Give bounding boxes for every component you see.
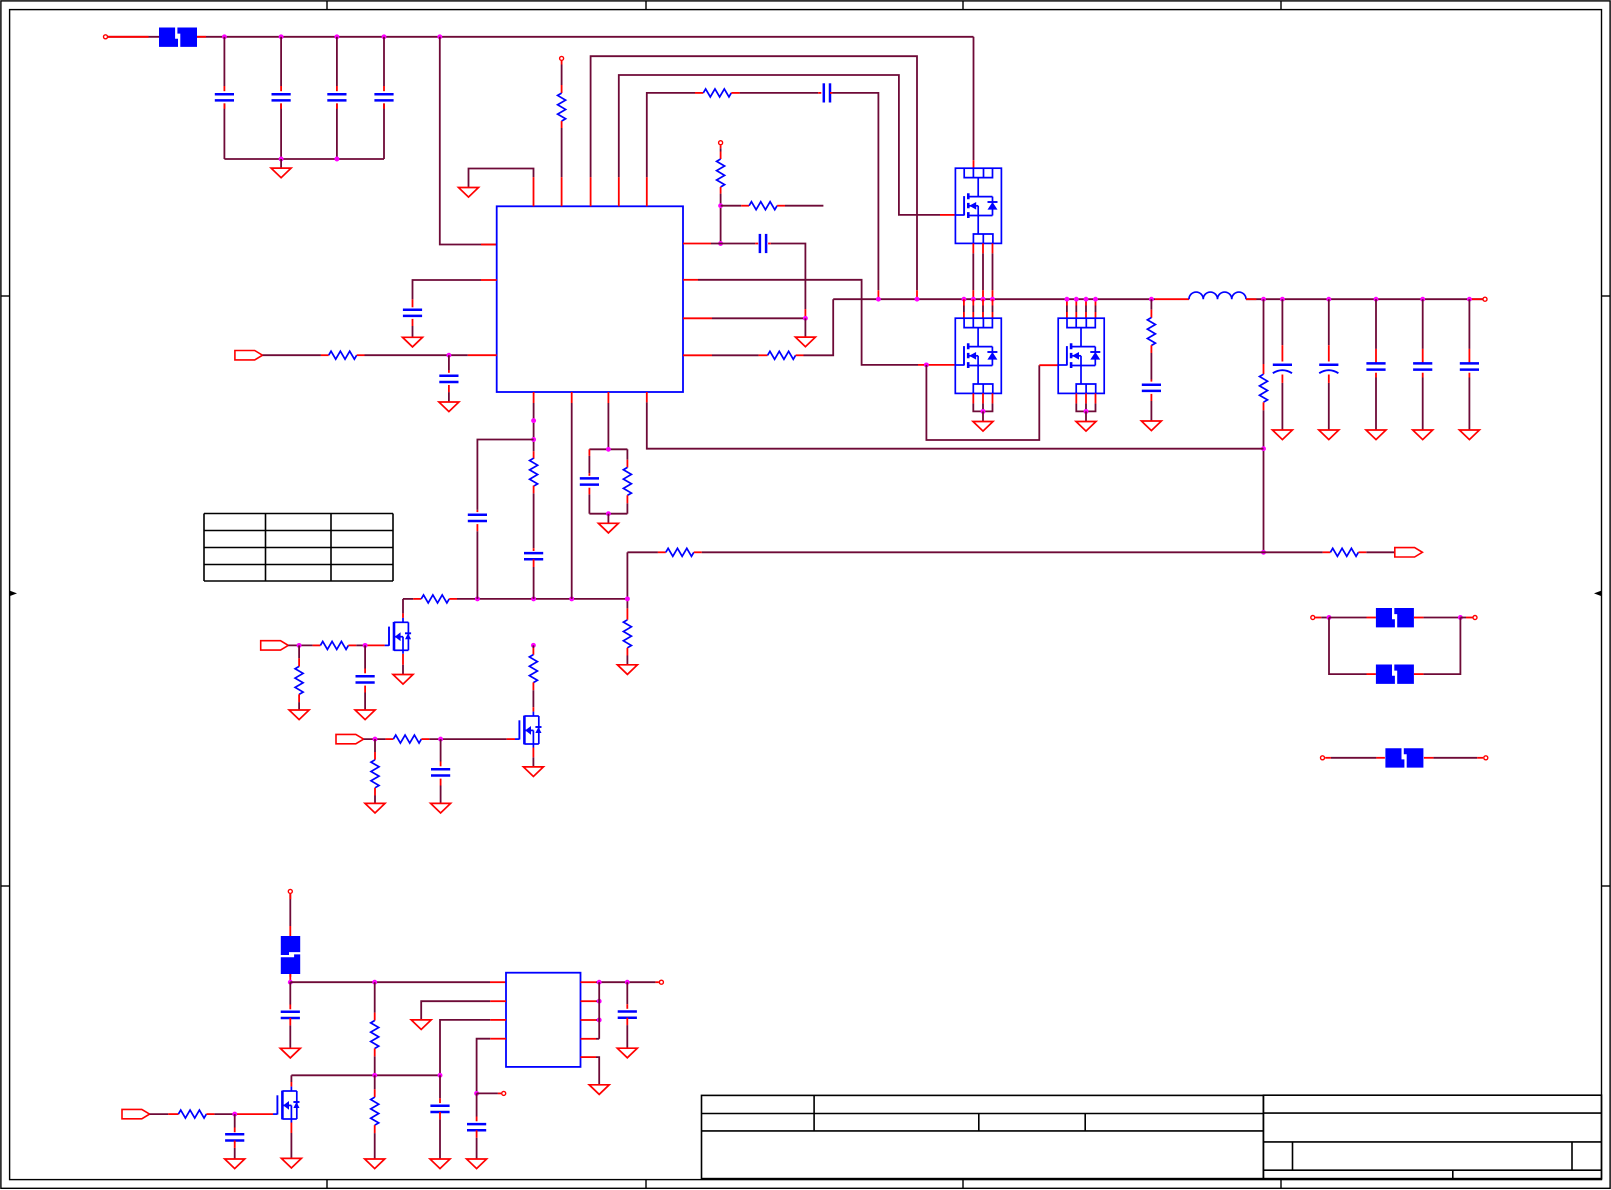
wire g5 wire2 [429,738,507,740]
wire c14 top [440,739,442,761]
terminal J1 VIN [104,35,108,39]
wire rc bottom bar [589,513,627,515]
wire j5 stub [1321,617,1329,619]
wire SW rail [833,298,1155,300]
junction q3-gnd [1084,409,1089,414]
ground C7 [439,402,459,412]
junction ldo-r20 [372,980,377,985]
capacitor C23 [1413,362,1432,365]
wire r19 bot [374,796,376,804]
junction adj-c18 [438,1073,443,1078]
wire C1 bottom lead [223,103,225,159]
ground U2 pin5 [589,1085,609,1095]
wire C3 bottom lead [336,103,338,159]
wire comp rail [457,598,627,600]
junction q5-drain [531,643,536,648]
ground C23 [1413,430,1433,440]
wire fb vertical [626,552,628,599]
resistor R21 [371,1097,379,1125]
wire C22 lead [1375,299,1377,349]
wire Q5 source [532,757,534,767]
wire rc cap bot [588,494,590,513]
fuse JP1 [1376,608,1395,627]
wire U2 adj pin [440,1020,490,1075]
wire EN port to R3 [263,354,321,356]
wire c17 top [626,982,628,1004]
resistor R5 [749,202,777,210]
wire c13 top [364,645,366,668]
wire fb gnd res top [626,599,628,609]
junction sw-q3b [1074,297,1079,302]
junction sw-q1b [971,297,976,302]
wire Q1 source pin1 [972,253,974,290]
junction out-d [597,1018,602,1023]
wire fb line right [1264,551,1323,553]
wire rc cap top [588,456,590,473]
wire gnd stem [280,159,282,168]
wire U2 out pin1 [596,981,655,983]
wire J2 to R1 [561,65,563,86]
ground U2 pin2 [411,1020,431,1030]
ground snubber [1141,421,1161,431]
transistor Q6 [290,1087,292,1091]
wire c19 bot [234,1148,236,1159]
ground C22 [1366,430,1386,440]
wire VOUT rail [1246,298,1483,300]
wire C7 top lead [448,355,450,370]
resistor R12 [421,595,449,603]
junction sw-q1a [961,297,966,302]
wire ldo vin rail [290,981,490,983]
capacitor C8 [759,234,762,253]
junction out-a [597,980,602,985]
ground rc [598,523,618,533]
junction out-c [597,999,602,1004]
wire jp top left [1329,617,1367,619]
wire U1 comp pin [571,403,573,599]
transistor Q1 [955,168,1001,243]
ground Q5 [523,767,543,777]
wire C4 top lead [383,37,385,86]
flag port G4 [261,641,289,650]
terminal J5 [1311,616,1315,620]
wire r21 bot [374,1133,376,1159]
wire VIN rail [197,36,974,38]
wire r21 top [374,1075,376,1089]
wire C8 to pgnd node [771,244,806,310]
capacitor C4 [374,93,393,96]
wire c14 bot [440,786,442,804]
terminal J8 [1484,756,1488,760]
wire C6 to gnd [412,326,414,337]
capacitor C16 [467,1123,486,1126]
ground Q6 [281,1158,301,1168]
junction vout-3 [1326,297,1331,302]
wire C1 top lead [223,37,225,86]
junction vout-6 [1467,297,1472,302]
junction g6 [232,1112,237,1117]
junction jp-left [1327,615,1332,620]
revision table [203,514,205,582]
wire rc gnd stem [607,514,609,524]
junction sw-q3a [1064,297,1069,302]
junction vout-2 [1280,297,1285,302]
wire U2 out pin4 [596,1038,599,1040]
wire C7 to gnd [448,392,450,402]
junction g5-a [373,737,378,742]
wire U1 pgnd pin [712,317,805,319]
wire R3 to U1 [365,354,468,356]
junction en-cap [446,353,451,358]
wire ss mid [533,493,535,548]
junction jp-right [1458,615,1463,620]
wire C21 gnd lead [1328,383,1330,430]
junction VIN-C4 [382,34,387,39]
wire Q4 source [402,665,404,675]
junction q2-gnd [981,409,986,414]
wire adj rail [291,1074,440,1076]
ground C15 [280,1048,300,1058]
junction rail-fb [625,596,630,601]
wire C24 lead [1468,299,1470,349]
junction sw-boot [876,297,881,302]
transistor Q4 [402,618,404,622]
terminal J10 [502,1091,506,1095]
ground R21 [365,1159,385,1169]
resistor R22 [178,1110,206,1118]
wire C20 lead [1281,299,1283,345]
wire Q6 source [290,1133,292,1158]
wire C21 lead [1328,299,1330,345]
wire VIN to fuse [108,36,159,38]
ground C13 [355,710,375,720]
wire Q3 gnd stem [1085,411,1087,421]
wire C2 bottom lead [280,103,282,159]
wire U1 BOOT net [647,93,695,177]
wire g4 port wire [288,644,312,646]
ground C24 [1459,430,1479,440]
junction sw-q1c [981,297,986,302]
capacitor C12 [580,477,599,480]
wire g5 port wire [364,738,386,740]
junction pgnd [803,316,808,321]
wire ss bottom [533,567,535,599]
ground C18 [430,1159,450,1169]
border arrow right [1594,591,1601,596]
inductor L1 [1189,292,1246,299]
capacitor C3 [327,93,346,96]
capacitor C17 [618,1010,637,1013]
title block [702,1095,1264,1178]
wire Q3 drain pin 3 [1085,306,1087,313]
wire Q2 drain pin 3 [982,306,984,313]
wire U1 pin to C8 [711,243,755,245]
wire U2 out pin3 [596,1019,599,1021]
wire U1 vsense net [647,402,1264,448]
junction sw-snub [1149,297,1154,302]
wire Q1 source pin2 [982,253,984,290]
wire jp loop right [1423,618,1460,675]
wire q5 drain wire [532,690,534,707]
ground C14 [431,803,451,813]
wire U2 gnd pin [421,1001,490,1020]
ground fb divider [617,665,637,675]
junction vcc-pin [718,241,723,246]
wire jp top right [1423,617,1460,619]
wire U1 cs pin [712,354,759,356]
ground C21 [1319,430,1339,440]
wire g6 wire2 [214,1113,234,1115]
junction sw-q3c [1084,297,1089,302]
wire fb to port [1366,551,1395,553]
wire c18 bot [439,1119,441,1159]
ground R16 [289,710,309,720]
wire r16 bot [298,702,300,710]
terminal J11 [659,980,663,984]
resistor R7 snubber [1147,318,1155,346]
wire c16 bot [476,1138,478,1159]
junction rc-bot [606,511,611,516]
resistor R16 [295,666,303,694]
ground Q4 [393,675,413,685]
capacitor C7 [439,375,458,378]
wire rc res top [626,449,628,459]
wire Q3 drain pin 4 [1095,306,1097,313]
ground Q2 [973,422,993,432]
wire J3 to R4 [720,148,722,151]
terminal J3 [719,141,723,145]
wire C23 lead [1422,299,1424,349]
wire j9 to F2 [289,894,291,926]
junction sense-fb2 [1261,550,1266,555]
wire pgnd stem [804,318,806,337]
ground C17 [617,1048,637,1058]
resistor R3 [329,351,357,359]
IC U2 [506,973,581,1067]
wire C4 bottom lead [383,103,385,159]
fuse F1 [159,28,178,47]
junction sw-q3d [1093,297,1098,302]
ground input caps [271,168,291,178]
wire Q3 drain pin 1 [1066,306,1068,313]
wire fb line [627,551,658,553]
wire c15 bot [289,1025,291,1048]
capacitor C9 snubber [1142,383,1161,386]
flag port G6 [122,1109,150,1118]
wire U2 gnd pin5 [596,1057,599,1085]
wire c15 top [289,982,291,1004]
wire C24 gnd lead [1468,378,1470,431]
capacitor C20 polarized [1273,363,1292,366]
junction vout-5 [1420,297,1425,302]
wire Q2 gnd stem [982,411,984,421]
wire Q2 drain pin 1 [963,306,965,313]
wire C22 gnd lead [1375,378,1377,431]
border arrow left [10,591,17,596]
wire fb gnd res bot [626,656,628,665]
junction VIN-C2 [279,34,284,39]
terminal J9 [288,889,292,893]
wire g4 wire2 [356,644,365,646]
wire Q1 source pin3 [992,253,994,290]
ground U1 AGND [459,188,479,198]
resistor R8 sense [1260,374,1268,402]
capacitor C6 en [403,308,422,311]
junction g4-b [363,643,368,648]
resistor R11 fb-gnd [623,620,631,648]
wire snub top [1150,299,1152,310]
junction out-b [625,980,630,985]
capacitor C21 polarized [1319,363,1338,366]
junction ss-b [531,437,536,442]
wire r19 top [374,739,376,752]
capacitor C18 [430,1105,449,1108]
wire U1 SW-sense net [591,56,917,290]
resistor R6 [768,351,796,359]
wire U2 out bus [598,982,600,1039]
wire sense top [1263,299,1265,364]
junction bus-gnd [279,157,284,162]
junction rail-c10 [475,596,480,601]
junction vout-1 [1261,297,1266,302]
wire U1 rt pin [607,403,609,449]
resistor R15 [320,641,348,649]
capacitor C19 [225,1133,244,1136]
capacitor C2 [272,93,291,96]
ground C6 [403,337,423,347]
fuse F2 [281,936,300,955]
wire U1 HG net [619,75,940,215]
wire VIN to U1 [440,37,497,245]
ground R19 [365,803,385,813]
transistor Q3 [1058,318,1104,393]
wire r16 top [298,645,300,658]
junction lg-gate [924,362,929,367]
wire r20 bot [374,1056,376,1075]
capacitor C1 [215,93,234,96]
resistor R17 [529,655,537,683]
resistor R2 boot [703,89,731,97]
wire snub gnd lead [1150,401,1152,421]
wire en stub [477,1092,498,1094]
wire F2 to rail [289,974,291,977]
wire Q4 drain [402,599,404,614]
wire fb line mid [702,551,1264,553]
wire U2 en pin [477,1039,491,1094]
ground C20 [1272,430,1292,440]
wire input cap bus [224,158,384,160]
transistor Q2 [955,318,1001,393]
junction sense-fb1 [1261,446,1266,451]
wire c10 bottom [476,531,478,599]
resistor R4 [717,159,725,187]
wire boot C to SW [833,93,879,290]
ground C16 [467,1159,487,1169]
wire rc top bar [589,448,627,450]
wire c16 top [476,1093,478,1116]
wire Q2 drain pin 4 [992,306,994,313]
wire R1 to U1 [561,128,563,177]
wire C3 top lead [336,37,338,86]
wire C23 gnd lead [1422,378,1424,431]
junction VIN-drop [437,34,442,39]
wire node stub R5 [721,205,742,207]
wire c18 top [439,1075,441,1098]
resistor R10 fb [1330,548,1358,556]
junction rail-ss [531,596,536,601]
capacitor C15 [281,1011,300,1014]
junction ss-a [531,418,536,423]
ground pgnd [795,337,815,347]
resistor R13 ss [530,458,538,486]
junction sw-pin [915,297,920,302]
terminal J2 [560,56,564,60]
wire R4 to node [720,194,722,244]
wire R6 to SW rail [804,299,834,355]
wire Q3 source bus [1076,403,1095,411]
resistor R9 fb [666,548,694,556]
junction VIN-C3 [334,34,339,39]
wire ss branch [477,440,533,510]
capacitor C10 [468,514,487,517]
wire j7 wire [1331,757,1377,759]
capacitor C13 [356,675,375,678]
resistor R1 [558,93,566,121]
wire snub mid [1150,353,1152,380]
border zone ticks [326,1,328,10]
resistor R19 [371,760,379,788]
ground C19 [225,1159,245,1169]
junction g5-b [438,737,443,742]
capacitor C5 boot [823,83,826,102]
junction VIN-C1 [222,34,227,39]
capacitor C22 [1366,362,1385,365]
junction rail-pin [569,596,574,601]
wire Q2 drain pin 2 [972,306,974,313]
transistor Q5 [532,712,534,716]
wire C2 top lead [280,37,282,86]
terminal J4 VOUT [1483,297,1487,301]
wire r20 top [374,982,376,1012]
junction sw-q1d [990,297,995,302]
flag port FB [1395,548,1423,557]
resistor R20 [371,1021,379,1049]
wire Q1 drain from VIN [973,37,975,160]
wire c13 bot [364,693,366,711]
junction en-node [474,1091,479,1096]
wire c19 top [234,1114,236,1127]
terminal J6 [1473,616,1477,620]
wire C20 gnd lead [1281,383,1283,430]
wire j8 wire [1433,757,1477,759]
wire Q3 drain pin 2 [1075,306,1077,313]
wire jp loop left [1329,618,1367,675]
junction vcc-r [718,203,723,208]
wire U1 EN net [413,280,482,299]
junction g4-a [297,643,302,648]
resistor R14 [623,467,631,495]
wire U1 LG net [698,280,918,365]
fuse JP2 [1376,665,1395,684]
wire LG loop to Q3 [926,365,1039,440]
junction vout-4 [1374,297,1379,302]
wire R5 stub end [785,205,823,207]
wire Q2 source bus [973,403,992,411]
wire U1 ss pin [533,403,535,451]
capacitor C24 [1460,362,1479,365]
junction bus-C3 [334,157,339,162]
wire U1 AGND pin [469,169,534,188]
